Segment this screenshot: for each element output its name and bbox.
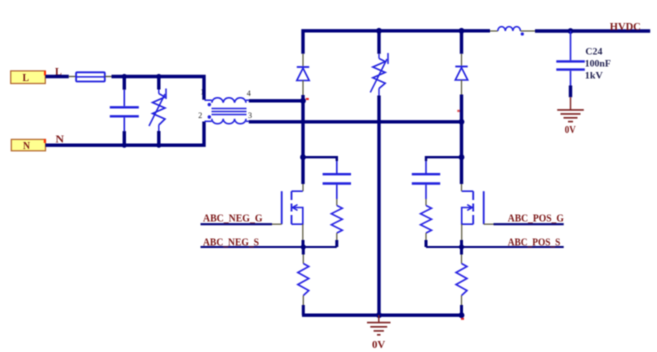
junction right leg / snubber branch <box>459 154 465 160</box>
svg-text:100nF: 100nF <box>585 60 611 70</box>
junction top bus middle leg <box>376 28 382 34</box>
junction pin4/left leg <box>300 98 306 104</box>
top bus wire <box>303 31 490 54</box>
junction left leg / snubber branch <box>300 154 306 160</box>
pin fuse right <box>105 76 112 78</box>
capacitor C24 <box>556 31 585 86</box>
junction HVDC / C24 <box>568 28 574 34</box>
inductor L1 <box>490 27 535 36</box>
port N <box>11 139 46 152</box>
ground 0V right <box>557 97 584 136</box>
junction top bus right leg <box>459 28 465 34</box>
svg-text:ABC_NEG_G: ABC_NEG_G <box>203 214 263 225</box>
ground 0V middle <box>367 315 391 351</box>
svg-text:HVDC: HVDC <box>610 22 641 33</box>
svg-text:N: N <box>23 141 31 152</box>
branch wire to C (left) <box>303 157 337 161</box>
middle leg wire <box>377 96 380 316</box>
snubber capacitor left <box>323 161 351 199</box>
snubber resistor right <box>421 199 432 247</box>
junction top wire at C <box>122 74 127 79</box>
svg-text:ABC_NEG_S: ABC_NEG_S <box>203 237 259 248</box>
bottom resistor right <box>456 247 467 315</box>
wire source left <box>201 246 337 248</box>
svg-text:C24: C24 <box>585 48 602 58</box>
junction bottom wire at RV <box>156 143 161 148</box>
svg-text:L: L <box>23 73 30 84</box>
wire N to choke <box>46 122 205 146</box>
junction source right <box>459 244 464 249</box>
svg-text:ABC_POS_S: ABC_POS_S <box>508 237 561 248</box>
diode D2 <box>455 31 467 95</box>
junction bottom bus middle <box>376 312 382 318</box>
red marker bottom right <box>461 318 464 320</box>
left leg to MOSFET drain <box>302 184 304 191</box>
svg-text:2: 2 <box>198 111 202 120</box>
C24 bottom stub <box>569 86 572 98</box>
port L <box>11 71 46 84</box>
X-capacitor stubs <box>123 77 126 90</box>
wire pin3 to right leg <box>249 120 462 123</box>
junction source left <box>301 244 306 249</box>
snubber resistor left <box>331 199 342 247</box>
varistor RV1 stubs <box>157 77 160 90</box>
wire pin4 to left leg <box>249 99 303 102</box>
bottom bus wire <box>302 314 462 317</box>
varistor RV1 <box>149 89 166 132</box>
junction pin3/right leg <box>459 119 465 125</box>
right leg wire <box>460 95 463 185</box>
svg-text:3: 3 <box>248 111 252 120</box>
junction bottom bus right <box>459 312 465 318</box>
varistor RV2 (middle) <box>370 31 388 96</box>
svg-text:0V: 0V <box>372 340 386 351</box>
MOSFET Q2 gate pin <box>484 223 494 225</box>
choke polarity dot pin2 <box>208 115 211 118</box>
HVDC bus wire <box>535 29 650 33</box>
wire fuse to choke <box>112 77 205 100</box>
junction bottom wire at C <box>122 143 127 148</box>
wire L to fuse <box>46 75 69 78</box>
wire gate right <box>494 223 564 225</box>
right leg to MOSFET drain <box>461 184 463 191</box>
red marker at pin4 junction <box>306 98 309 100</box>
left leg wire <box>301 95 304 184</box>
choke top winding <box>205 98 249 103</box>
pin fuse left <box>69 76 76 78</box>
MOSFET Q2 (right) <box>462 191 484 224</box>
MOSFET Q1 source pin <box>302 224 304 240</box>
MOSFET Q1 (left) <box>282 191 303 224</box>
choke polarity dot pin1 <box>208 103 211 106</box>
svg-text:ABC_POS_G: ABC_POS_G <box>508 214 564 225</box>
diode D1 <box>297 54 309 95</box>
junction top wire at RV <box>156 74 161 79</box>
svg-text:0V: 0V <box>565 125 577 136</box>
snubber capacitor right <box>412 161 440 199</box>
choke core lines <box>212 109 247 115</box>
red marker right leg <box>457 110 460 112</box>
fuse F1 <box>76 72 105 81</box>
choke bottom winding <box>205 119 249 124</box>
wire source right <box>426 246 564 248</box>
svg-text:1kV: 1kV <box>585 71 603 81</box>
bottom resistor left <box>298 247 309 315</box>
X-capacitor <box>110 90 139 131</box>
branch wire to C (right) <box>426 157 462 161</box>
MOSFET Q1 gate pin <box>272 223 282 225</box>
svg-text:4: 4 <box>247 89 251 98</box>
MOSFET Q2 source pin <box>461 224 463 240</box>
wire gate left <box>201 223 273 225</box>
